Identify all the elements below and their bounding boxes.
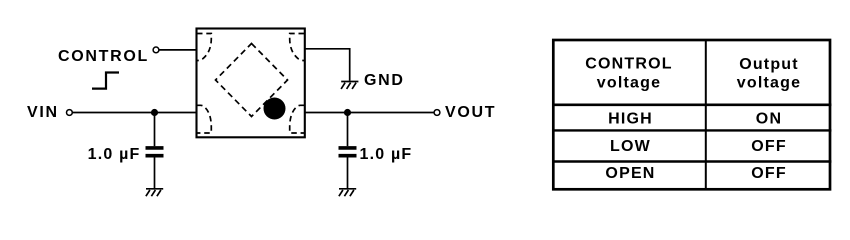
wire U1 to VOUT xyxy=(305,112,434,114)
svg-text:OFF: OFF xyxy=(751,165,787,182)
pad top-right (dashed) xyxy=(290,34,304,61)
svg-text:ON: ON xyxy=(756,110,782,127)
wire VIN to U1 xyxy=(72,112,196,114)
capacitor C2 plates xyxy=(339,148,357,156)
truth table header separator xyxy=(552,103,831,106)
IC U1 package outline xyxy=(197,29,305,138)
wire junction to C2 xyxy=(347,113,349,147)
svg-text:Output: Output xyxy=(739,56,799,73)
svg-text:CONTROL: CONTROL xyxy=(58,48,149,65)
terminal CONTROL xyxy=(153,47,159,53)
pad bottom-left (dashed) xyxy=(197,105,211,133)
svg-text:HIGH: HIGH xyxy=(608,110,653,127)
truth table column divider xyxy=(705,40,707,189)
wire C1 to ground xyxy=(154,158,156,189)
svg-text:OPEN: OPEN xyxy=(605,165,655,182)
svg-text:LOW: LOW xyxy=(610,138,651,155)
junction VOUT/C2 xyxy=(344,109,351,116)
svg-text:CONTROL: CONTROL xyxy=(585,56,673,73)
ground (GND pin) xyxy=(341,82,358,89)
ground (C1) xyxy=(146,189,163,196)
wire C2 to ground xyxy=(347,158,349,189)
svg-text:1.0 µF: 1.0 µF xyxy=(88,146,141,163)
ground (C2) xyxy=(339,189,356,196)
svg-text:1.0 µF: 1.0 µF xyxy=(360,146,413,163)
svg-text:OFF: OFF xyxy=(751,138,787,155)
wire U1 to GND xyxy=(305,49,350,81)
terminal VIN xyxy=(67,110,73,116)
capacitor C1 plates xyxy=(146,148,164,156)
pin 1 indicator dot xyxy=(264,98,286,120)
truth table row line 2 xyxy=(552,129,831,131)
terminal VOUT xyxy=(434,110,440,116)
svg-text:voltage: voltage xyxy=(597,75,661,92)
truth table row line 3 xyxy=(552,160,831,163)
pad bottom-right (dashed) xyxy=(290,105,304,133)
thermal pad dashed diamond xyxy=(216,44,288,117)
wire CONTROL to U1 xyxy=(159,49,197,51)
svg-text:voltage: voltage xyxy=(737,75,801,92)
svg-text:GND: GND xyxy=(364,72,405,89)
junction VIN/C1 xyxy=(151,109,158,116)
truth table outer frame xyxy=(553,40,830,189)
wire junction to C1 xyxy=(154,113,156,147)
svg-text:VOUT: VOUT xyxy=(445,104,496,121)
control step waveform xyxy=(92,73,119,89)
svg-text:VIN: VIN xyxy=(27,104,59,121)
pad top-left (dashed) xyxy=(197,34,211,61)
